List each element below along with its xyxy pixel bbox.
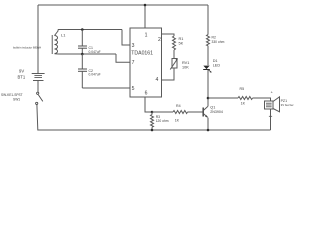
switch SW1 SPST xyxy=(1,92,43,104)
buzzer minus polarity mark xyxy=(269,115,272,117)
wire buzzer to bottom rail xyxy=(270,109,272,130)
wire pin6 row to R4 xyxy=(152,111,173,113)
transistor Q1 2N3904 xyxy=(203,106,223,131)
wire pin6 down and right xyxy=(145,97,152,112)
node R5 branch junction xyxy=(207,97,210,100)
svg-text:9V: 9V xyxy=(19,68,24,73)
wire pin1 to top rail xyxy=(144,5,146,28)
svg-text:1K: 1K xyxy=(175,119,180,123)
svg-text:10K: 10K xyxy=(182,66,189,70)
resistor R1 5K xyxy=(173,36,184,59)
wire RV1 to pin4 xyxy=(162,68,175,80)
wire pin5 xyxy=(82,87,130,89)
wire LED to collector xyxy=(207,70,209,107)
svg-text:0.047uF: 0.047uF xyxy=(89,73,101,77)
battery BT1 xyxy=(18,68,45,80)
svg-text:3V buzzer: 3V buzzer xyxy=(281,103,294,107)
op-amp U1 TDA0161 xyxy=(130,28,162,97)
svg-text:R5: R5 xyxy=(240,87,245,91)
svg-text:Q1: Q1 xyxy=(210,106,215,110)
svg-text:R4: R4 xyxy=(176,104,181,108)
svg-text:330 ohm: 330 ohm xyxy=(212,40,225,44)
svg-text:BT1: BT1 xyxy=(18,74,26,79)
wire switch to bottom rail xyxy=(37,105,38,130)
wire pin2 to R1 xyxy=(162,34,175,36)
svg-text:TDA0161: TDA0161 xyxy=(131,50,153,56)
svg-text:4: 4 xyxy=(156,77,159,83)
wire left battery branch xyxy=(37,5,39,74)
resistor R4 1K xyxy=(173,104,188,123)
potentiometer RV1 10K xyxy=(170,59,189,70)
svg-text:6: 6 xyxy=(145,91,148,97)
wire pin3 step xyxy=(122,30,130,46)
resistor R2 330 ohm xyxy=(207,35,225,66)
svg-text:3: 3 xyxy=(132,43,135,49)
svg-text:bobbin inductor 680μH: bobbin inductor 680μH xyxy=(13,46,41,50)
LED D1 xyxy=(203,59,220,73)
node C1 top junction xyxy=(81,28,84,31)
node C1/C2 junction xyxy=(81,53,84,56)
svg-text:SW1: SW1 xyxy=(13,97,20,101)
wire pin7 step xyxy=(116,54,130,62)
inductor L1 bobbin 680uH xyxy=(13,30,66,55)
svg-text:R1: R1 xyxy=(179,37,184,41)
wire R5 to buzzer xyxy=(253,98,271,101)
svg-text:2: 2 xyxy=(158,37,161,43)
wire bottom rail xyxy=(38,129,271,131)
svg-text:1: 1 xyxy=(145,33,148,39)
svg-text:D1: D1 xyxy=(213,59,218,63)
svg-text:L1: L1 xyxy=(61,33,66,38)
capacitor C1 0.047uF xyxy=(78,30,101,55)
wire collector node to R5 xyxy=(208,97,238,99)
buzzer PZ1 xyxy=(265,90,294,112)
svg-text:2N3904: 2N3904 xyxy=(210,110,223,114)
wire top rail xyxy=(38,4,208,6)
svg-text:LED: LED xyxy=(213,64,221,68)
svg-text:7: 7 xyxy=(132,60,135,66)
svg-text:5: 5 xyxy=(132,86,135,92)
node emitter bottom rail junction xyxy=(207,129,210,132)
wire R4 to base xyxy=(188,111,203,113)
resistor R5 1K xyxy=(238,87,253,106)
wire inner top rail xyxy=(58,29,122,31)
resistor R3 120 ohm xyxy=(151,112,169,130)
node R3 bottom junction xyxy=(151,129,154,132)
wire middle rail xyxy=(59,53,117,55)
wire top rail right corner to R2 xyxy=(207,5,209,35)
wire battery to switch xyxy=(37,80,39,92)
capacitor C2 0.047uF xyxy=(78,54,101,88)
svg-text:1K: 1K xyxy=(241,102,246,106)
node pin1 top rail junction xyxy=(144,4,147,7)
svg-text:5K: 5K xyxy=(179,42,184,46)
svg-text:120 ohm: 120 ohm xyxy=(156,119,169,123)
svg-text:R2: R2 xyxy=(212,36,216,40)
svg-text:0.047uF: 0.047uF xyxy=(89,50,101,54)
svg-text:RV1: RV1 xyxy=(182,61,189,65)
node R3 top junction xyxy=(151,111,154,114)
